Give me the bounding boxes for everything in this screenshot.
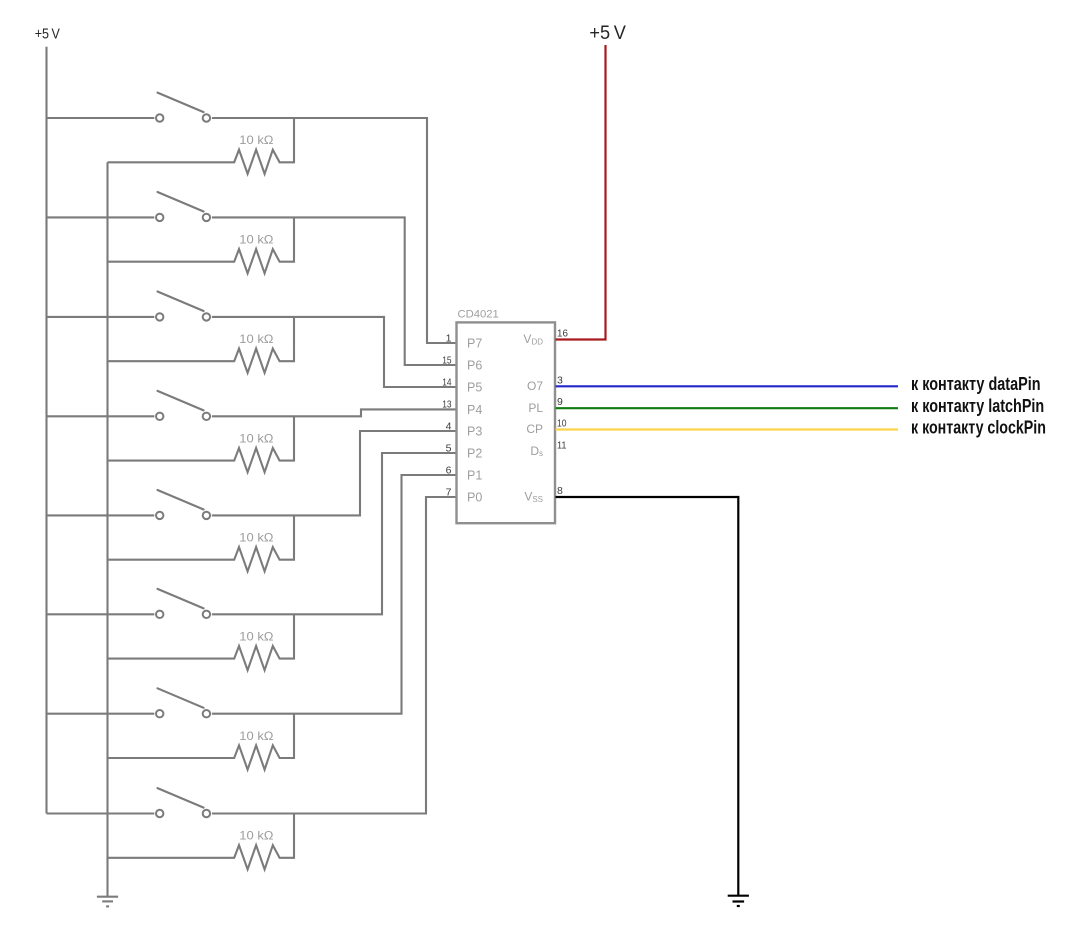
svg-text:к контакту dataPin: к контакту dataPin (911, 374, 1041, 394)
svg-text:10 kΩ: 10 kΩ (239, 531, 273, 545)
svg-text:10: 10 (557, 418, 567, 430)
svg-text:10 kΩ: 10 kΩ (239, 431, 273, 445)
svg-text:5: 5 (446, 442, 452, 454)
svg-text:10 kΩ: 10 kΩ (239, 133, 273, 147)
svg-text:10 kΩ: 10 kΩ (239, 332, 273, 346)
svg-text:8: 8 (557, 485, 563, 497)
svg-text:P7: P7 (467, 337, 482, 351)
svg-text:P5: P5 (467, 381, 482, 395)
svg-text:P2: P2 (467, 447, 482, 461)
svg-text:11: 11 (557, 439, 567, 451)
svg-text:10 kΩ: 10 kΩ (239, 629, 273, 643)
svg-text:16: 16 (557, 328, 568, 340)
svg-text:CD4021: CD4021 (458, 308, 499, 320)
svg-text:10 kΩ: 10 kΩ (239, 829, 273, 843)
svg-text:P3: P3 (467, 425, 482, 439)
svg-text:O7: O7 (527, 379, 543, 393)
svg-text:9: 9 (557, 396, 563, 408)
svg-text:к контакту clockPin: к контакту clockPin (911, 417, 1046, 437)
svg-text:10 kΩ: 10 kΩ (239, 233, 273, 247)
svg-text:3: 3 (557, 374, 563, 386)
svg-text:13: 13 (442, 399, 451, 411)
svg-text:P4: P4 (467, 403, 482, 417)
svg-text:P6: P6 (467, 359, 482, 373)
svg-text:14: 14 (442, 376, 451, 388)
svg-text:1: 1 (446, 332, 452, 344)
svg-text:P1: P1 (467, 469, 482, 483)
svg-text:4: 4 (446, 420, 452, 432)
svg-text:7: 7 (446, 486, 452, 498)
svg-text:6: 6 (446, 464, 452, 476)
svg-text:+5 V: +5 V (589, 22, 626, 44)
svg-text:PL: PL (528, 401, 543, 415)
svg-text:к контакту latchPin: к контакту latchPin (911, 396, 1044, 416)
svg-text:15: 15 (442, 354, 451, 366)
svg-text:CP: CP (526, 422, 543, 436)
svg-text:10 kΩ: 10 kΩ (239, 729, 273, 743)
svg-text:P0: P0 (467, 491, 482, 505)
svg-text:+5 V: +5 V (35, 25, 60, 42)
